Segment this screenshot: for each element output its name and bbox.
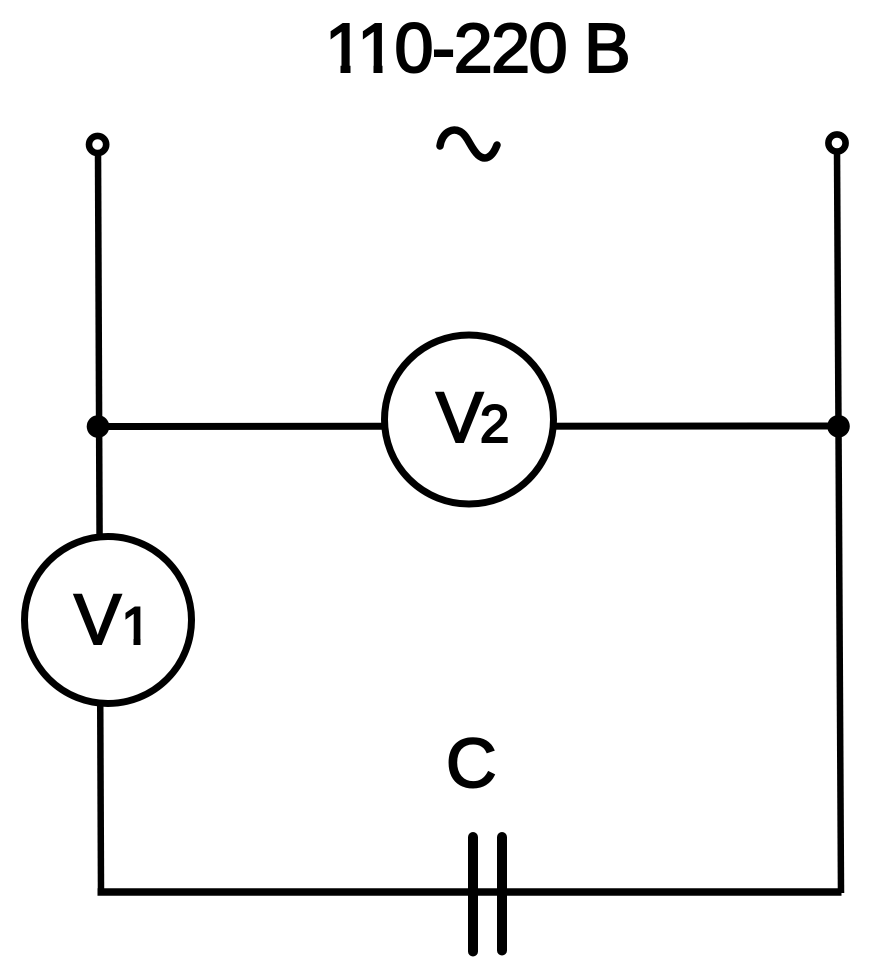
svg-text:C: C — [446, 724, 497, 802]
svg-text:110-220 В: 110-220 В — [325, 9, 629, 87]
